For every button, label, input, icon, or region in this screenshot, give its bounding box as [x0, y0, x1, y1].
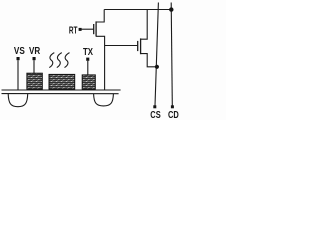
wire Q2 drain to top rail [141, 10, 148, 40]
wire node to Q2 gate [105, 45, 138, 47]
acoustic wave squiggle 3 [65, 53, 70, 68]
terminal dot RT [79, 28, 82, 31]
acoustic wave squiggle 1 [49, 53, 54, 68]
substrate bottom line [2, 93, 119, 95]
terminal dot TX [86, 58, 89, 61]
transistor Q1 channel bar [95, 21, 97, 36]
node junction dot on top rail / CD line [169, 7, 173, 11]
wire Q1 drain to top rail [96, 10, 104, 23]
substrate top surface line [2, 89, 121, 91]
diffusion well right [94, 94, 114, 106]
electrode TX (hatched) [82, 75, 95, 90]
svg-text:VR: VR [29, 46, 41, 57]
svg-text:VS: VS [14, 46, 25, 57]
svg-text:CS: CS [150, 110, 160, 120]
node junction dot on CS line [155, 65, 159, 69]
transistor Q2 channel bar [140, 38, 142, 54]
electrode VR (hatched) [27, 73, 42, 89]
transistor Q2 gate bar [137, 41, 139, 51]
diffusion well left [8, 94, 28, 107]
wire TX lead [87, 61, 89, 75]
transistor Q1 gate bar [93, 24, 95, 34]
terminal dot CS [153, 105, 156, 108]
wire CD vertical line [171, 3, 172, 106]
wire Q2 source to CS line [141, 54, 157, 67]
wire VR lead [33, 60, 35, 73]
terminal dot VR [33, 57, 36, 60]
svg-text:RT: RT [69, 25, 78, 36]
electrode middle (hatched) [49, 74, 75, 89]
wire Q1 source down to substrate contact [96, 36, 105, 90]
acoustic wave squiggle 2 [57, 53, 62, 68]
wire CS vertical line [155, 3, 158, 106]
wire RT gate lead [81, 28, 93, 30]
svg-text:TX: TX [83, 47, 93, 58]
svg-text:CD: CD [168, 110, 179, 120]
terminal dot VS [17, 57, 20, 60]
wire top rail [104, 9, 171, 11]
wire VS lead [17, 60, 19, 90]
terminal dot CD [171, 105, 174, 108]
